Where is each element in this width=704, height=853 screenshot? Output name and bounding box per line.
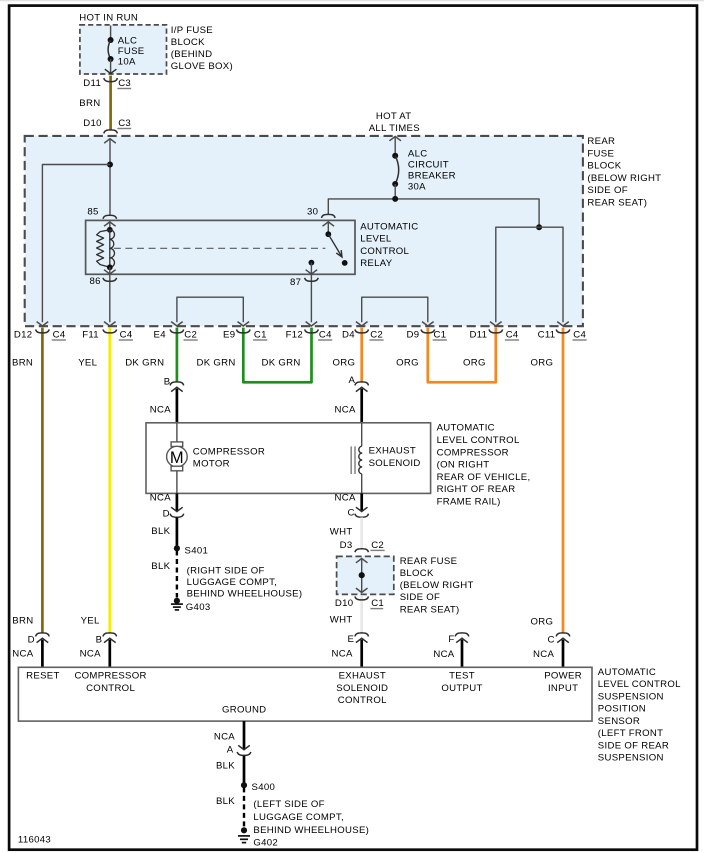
svg-text:REAR FUSE: REAR FUSE [400, 556, 458, 567]
ground G403 [174, 598, 180, 604]
svg-text:COMPRESSOR: COMPRESSOR [74, 671, 146, 682]
svg-text:C: C [347, 508, 354, 519]
wire solenoid to C [361, 474, 363, 494]
splice S401 [174, 545, 180, 551]
relay switch common dot [325, 231, 331, 237]
svg-text:C4: C4 [120, 329, 133, 340]
svg-text:NCA: NCA [214, 731, 235, 742]
svg-text:BRN: BRN [12, 615, 33, 626]
svg-text:BLOCK: BLOCK [171, 37, 205, 48]
arrow pin 30 [323, 222, 335, 226]
svg-text:POWER: POWER [544, 671, 582, 682]
svg-text:SUSPENSION: SUSPENSION [598, 753, 664, 764]
svg-text:D11: D11 [83, 78, 101, 89]
svg-text:E: E [347, 634, 354, 645]
wire pin 86 to F11 [109, 275, 111, 323]
arrow pin 87 [306, 270, 318, 274]
svg-text:COMPRESSOR: COMPRESSOR [437, 447, 509, 458]
svg-text:C2: C2 [371, 540, 384, 551]
wire motor to D [176, 471, 178, 494]
svg-text:ORG: ORG [333, 357, 356, 368]
inline connector F [455, 633, 469, 637]
svg-text:30: 30 [307, 207, 318, 218]
compressor box [146, 423, 431, 494]
svg-text:NCA: NCA [332, 649, 353, 660]
svg-text:G402: G402 [253, 838, 278, 849]
wire WHT D10 to E [360, 595, 363, 633]
svg-text:BLOCK: BLOCK [587, 161, 621, 172]
wire bridge D4-D9 [362, 297, 428, 322]
arrow into E9 [238, 322, 250, 326]
svg-text:G403: G403 [186, 602, 211, 613]
svg-text:10A: 10A [118, 56, 136, 67]
wire BRN D11-D10 [109, 76, 112, 130]
arrow into F12 [306, 322, 318, 326]
wire NCA A to compressor [360, 389, 363, 424]
svg-text:INPUT: INPUT [548, 683, 578, 694]
connector pin 86 [103, 278, 117, 282]
connector pin 87 [305, 278, 319, 282]
svg-text:NCA: NCA [150, 404, 171, 415]
svg-text:86: 86 [90, 276, 101, 287]
svg-text:GROUND: GROUND [222, 705, 266, 716]
svg-text:D10: D10 [83, 118, 102, 129]
svg-text:LUGGAGE COMPT,: LUGGAGE COMPT, [253, 812, 344, 823]
svg-text:GLOVE BOX): GLOVE BOX) [171, 61, 233, 72]
svg-text:EXHAUST: EXHAUST [339, 671, 386, 682]
wire fuse output [110, 59, 112, 73]
svg-text:NCA: NCA [12, 649, 33, 660]
top hairline [0, 0, 704, 2]
inline connector A [355, 382, 369, 386]
svg-text:C: C [547, 634, 554, 645]
wire bridge E4-E9 [177, 297, 243, 322]
svg-text:C2: C2 [184, 329, 197, 340]
relay switch arm [328, 234, 342, 257]
wire pin 30 to switch [327, 222, 329, 234]
svg-text:S401: S401 [185, 546, 209, 557]
svg-text:D: D [163, 509, 170, 520]
wire motor output [176, 493, 179, 511]
svg-text:(LEFT FRONT: (LEFT FRONT [598, 728, 663, 739]
svg-text:S400: S400 [252, 782, 276, 793]
wire BLK A to S400 [243, 756, 246, 786]
svg-text:BRN: BRN [12, 357, 33, 368]
arrow fuse block exit [356, 588, 368, 592]
svg-text:NCA: NCA [433, 649, 454, 660]
junction fuse block [359, 572, 365, 578]
fuse ALC FUSE 10A [108, 37, 114, 43]
svg-text:NCA: NCA [335, 404, 356, 415]
wire branch to D12 [42, 165, 110, 323]
wire YEL F11 to sensor B [108, 328, 111, 633]
connector pin D11 C4 [489, 329, 503, 333]
arrow into D4 [356, 322, 368, 326]
svg-text:RIGHT OF REAR: RIGHT OF REAR [437, 484, 516, 495]
svg-text:D9: D9 [407, 329, 420, 340]
I/P fuse block box [80, 25, 167, 74]
svg-text:C3: C3 [118, 78, 131, 89]
svg-text:BEHIND WHEELHOUSE): BEHIND WHEELHOUSE) [187, 589, 303, 600]
svg-text:E9: E9 [223, 329, 235, 340]
wire fuse input [110, 26, 112, 41]
connector pin E4 C2 [170, 329, 184, 333]
svg-text:WHT: WHT [330, 526, 353, 537]
connector pin 85 [103, 215, 117, 219]
svg-text:REAR OF VEHICLE,: REAR OF VEHICLE, [437, 472, 531, 483]
svg-text:OUTPUT: OUTPUT [441, 683, 482, 694]
svg-text:ORG: ORG [531, 357, 554, 368]
arrow from D10 entry [104, 139, 116, 143]
svg-text:C4: C4 [319, 329, 332, 340]
svg-text:116043: 116043 [18, 834, 51, 845]
svg-text:B: B [96, 635, 103, 646]
wire DK GRN loop E9-F12 [243, 328, 311, 383]
wire sensor ground output [243, 721, 246, 749]
svg-text:ORG: ORG [396, 357, 419, 368]
wire ORG C11 to sensor C [562, 328, 565, 633]
inline connector B [103, 633, 117, 637]
svg-text:REAR SEAT): REAR SEAT) [400, 604, 460, 615]
svg-text:WHT: WHT [330, 615, 353, 626]
wire ORG loop D9-D11 [428, 328, 496, 383]
svg-text:SUSPENSION: SUSPENSION [598, 691, 664, 702]
svg-text:C2: C2 [370, 329, 383, 340]
svg-text:C1: C1 [371, 598, 384, 609]
svg-text:I/P FUSE: I/P FUSE [171, 25, 213, 36]
sensor box [18, 667, 592, 721]
svg-text:NCA: NCA [80, 649, 101, 660]
wire E to sensor [360, 640, 363, 668]
svg-text:(ON RIGHT: (ON RIGHT [437, 460, 490, 471]
svg-text:SOLENOID: SOLENOID [336, 683, 388, 694]
svg-text:CONTROL: CONTROL [86, 683, 135, 694]
svg-text:D3: D3 [340, 540, 353, 551]
junction right branch [536, 224, 542, 230]
svg-text:LUGGAGE COMPT,: LUGGAGE COMPT, [187, 577, 278, 588]
svg-text:SIDE OF REAR: SIDE OF REAR [598, 741, 669, 752]
solenoid L1 exhaust solenoid coil [359, 446, 362, 474]
wire through fuse block [361, 558, 363, 592]
arrow fuse block entry [356, 558, 368, 562]
svg-text:SIDE OF: SIDE OF [587, 185, 627, 196]
svg-text:ALC: ALC [118, 36, 138, 47]
wire into solenoid [361, 423, 363, 446]
svg-text:E4: E4 [154, 329, 167, 340]
svg-text:A: A [227, 744, 234, 755]
svg-text:(RIGHT SIDE OF: (RIGHT SIDE OF [187, 566, 265, 577]
wire solenoid output [360, 493, 363, 511]
svg-text:NCA: NCA [533, 649, 554, 660]
svg-text:POSITION: POSITION [598, 704, 646, 715]
svg-text:YEL: YEL [78, 357, 97, 368]
svg-text:C3: C3 [118, 118, 131, 129]
relay coil [107, 227, 113, 233]
arrow fuse output [105, 69, 117, 73]
connector pin F12 C4 [305, 329, 319, 333]
svg-text:AUTOMATIC: AUTOMATIC [598, 667, 656, 678]
svg-text:BEHIND WHEELHOUSE): BEHIND WHEELHOUSE) [253, 825, 369, 836]
svg-text:HOT AT: HOT AT [376, 111, 412, 122]
svg-text:DK GRN: DK GRN [262, 357, 301, 368]
wire F to sensor [461, 640, 464, 668]
arrow to hot feed [389, 136, 401, 140]
svg-text:C1: C1 [434, 329, 447, 340]
wire NCA B to compressor [176, 389, 179, 424]
wire breaker input [394, 136, 396, 155]
svg-text:ORG: ORG [463, 357, 486, 368]
splice S400 [241, 782, 247, 788]
svg-text:DK GRN: DK GRN [197, 357, 236, 368]
svg-text:LEVEL CONTROL: LEVEL CONTROL [598, 679, 681, 690]
arrow pin 85 [104, 222, 116, 226]
relay switch NO contact dot [342, 260, 348, 266]
arrow into D9 [422, 322, 434, 326]
svg-text:BLK: BLK [151, 561, 170, 572]
connector pin D11 C3 [104, 78, 118, 82]
svg-text:DK GRN: DK GRN [125, 357, 164, 368]
inline connector D [36, 633, 50, 637]
relay switch 87 contact dot [309, 260, 315, 266]
rear fuse block small box [337, 556, 394, 594]
svg-text:REAR SEAT): REAR SEAT) [587, 197, 647, 208]
svg-text:BRN: BRN [79, 98, 100, 109]
arrow into F11 [104, 322, 116, 326]
connector pin 30 [322, 214, 336, 218]
connector pin D3 C2 [355, 549, 369, 553]
svg-text:C4: C4 [53, 329, 66, 340]
svg-text:CONTROL: CONTROL [338, 695, 387, 706]
svg-text:CONTROL: CONTROL [360, 246, 409, 257]
wire D10 to relay pin 85 [109, 139, 111, 216]
svg-text:FUSE: FUSE [118, 46, 145, 57]
wire B to sensor [108, 640, 111, 668]
wire C to sensor [562, 640, 565, 668]
svg-text:F11: F11 [82, 329, 99, 340]
inline connector E [355, 633, 369, 637]
svg-text:COMPRESSOR: COMPRESSOR [193, 446, 265, 457]
svg-text:(BELOW RIGHT: (BELOW RIGHT [587, 173, 661, 184]
arrow pin 86 [104, 270, 116, 274]
wire breaker output [394, 184, 396, 199]
svg-text:BLK: BLK [216, 796, 235, 807]
svg-text:85: 85 [87, 207, 98, 218]
relay actuator dashed link [114, 247, 326, 249]
svg-text:D12: D12 [14, 329, 33, 340]
wire coil to pin 86 [109, 267, 111, 274]
svg-text:NCA: NCA [150, 493, 171, 504]
svg-text:FRAME RAIL): FRAME RAIL) [437, 497, 501, 508]
svg-text:RESET: RESET [26, 671, 60, 682]
wire 87 contact to pin [310, 263, 312, 275]
wire pin 85 to coil [109, 222, 111, 230]
svg-text:LEVEL CONTROL: LEVEL CONTROL [437, 435, 520, 446]
svg-text:SIDE OF: SIDE OF [400, 592, 440, 603]
arrow into D12 [37, 322, 49, 326]
circuit breaker ALC 30A [392, 153, 398, 159]
relay box [86, 220, 355, 274]
connector pin D4 C2 [355, 329, 369, 333]
svg-text:LEVEL: LEVEL [360, 234, 392, 245]
svg-text:BLK: BLK [216, 761, 235, 772]
svg-text:C4: C4 [506, 329, 519, 340]
svg-text:BLOCK: BLOCK [400, 568, 434, 579]
inline connector C [556, 633, 570, 637]
wire BRN D12 to sensor D [41, 328, 44, 633]
ground G402 [241, 827, 247, 833]
connector pin F11 C4 [103, 329, 117, 333]
wire pin 87 to F12 [310, 275, 312, 323]
svg-text:C1: C1 [254, 329, 267, 340]
svg-text:ALL TIMES: ALL TIMES [369, 123, 420, 134]
svg-text:C4: C4 [573, 329, 586, 340]
svg-text:BLK: BLK [151, 526, 170, 537]
connector pin E9 C1 [237, 329, 251, 333]
svg-text:ORG: ORG [531, 617, 554, 628]
inline connector D [171, 507, 183, 511]
inline connector C [356, 507, 368, 511]
svg-text:M: M [170, 449, 184, 467]
wire ORG D4 to A [360, 328, 363, 382]
svg-text:HOT IN RUN: HOT IN RUN [79, 13, 138, 24]
svg-text:D: D [28, 635, 35, 646]
junction breaker-bus [392, 196, 398, 202]
svg-text:TEST: TEST [449, 671, 475, 682]
svg-text:EXHAUST: EXHAUST [369, 446, 416, 457]
connector pin D10 C1 [355, 596, 369, 600]
inline connector B [170, 382, 184, 386]
wire into motor [176, 423, 178, 442]
connector pin C11 C4 [556, 329, 570, 333]
wire branch D11-C11 [496, 227, 563, 322]
wire DK GRN E4 to B [176, 328, 179, 382]
svg-text:87: 87 [290, 277, 301, 288]
svg-text:(LEFT SIDE OF: (LEFT SIDE OF [253, 799, 324, 810]
svg-text:D4: D4 [342, 329, 355, 340]
svg-text:D10: D10 [335, 598, 354, 609]
connector pin D10 C3 [104, 130, 118, 134]
svg-text:(BEHIND: (BEHIND [171, 49, 213, 60]
wire D to sensor [41, 640, 44, 668]
svg-text:30A: 30A [408, 182, 426, 193]
svg-text:MOTOR: MOTOR [193, 459, 230, 470]
arrow into D11 [490, 322, 502, 326]
svg-text:ALC: ALC [408, 148, 428, 159]
wire BLK D to S401 [176, 517, 179, 548]
svg-text:YEL: YEL [81, 615, 100, 626]
svg-text:AUTOMATIC: AUTOMATIC [437, 423, 495, 434]
svg-text:C11: C11 [538, 329, 556, 340]
arrow into C11 [557, 322, 569, 326]
motor M1 compressor motor [171, 442, 183, 447]
svg-text:A: A [348, 375, 355, 386]
svg-text:F: F [448, 634, 454, 645]
svg-text:D11: D11 [470, 329, 488, 340]
inline connector A [238, 745, 250, 749]
svg-text:REAR: REAR [587, 136, 615, 147]
svg-text:(BELOW RIGHT: (BELOW RIGHT [400, 580, 474, 591]
arrow into E4 [171, 322, 183, 326]
svg-text:AUTOMATIC: AUTOMATIC [360, 221, 418, 232]
junction branch to D12 [107, 162, 113, 168]
svg-text:B: B [164, 376, 171, 387]
svg-text:SOLENOID: SOLENOID [369, 458, 421, 469]
wire BLK S400 to G402 [243, 787, 245, 827]
svg-text:FUSE: FUSE [587, 148, 614, 159]
svg-text:BREAKER: BREAKER [408, 171, 456, 182]
rear fuse block box [25, 136, 583, 326]
svg-text:SENSOR: SENSOR [598, 716, 640, 727]
wire WHT C to D3 [360, 517, 363, 548]
svg-text:RELAY: RELAY [360, 258, 393, 269]
wire bus to relay pin 30 and right branch [328, 199, 539, 227]
connector pin D12 C4 [36, 329, 50, 333]
svg-text:NCA: NCA [335, 493, 356, 504]
wire BLK S401 to G403 [176, 551, 178, 598]
svg-text:F12: F12 [286, 329, 303, 340]
connector pin D9 C1 [421, 329, 435, 333]
svg-text:CIRCUIT: CIRCUIT [408, 160, 449, 171]
